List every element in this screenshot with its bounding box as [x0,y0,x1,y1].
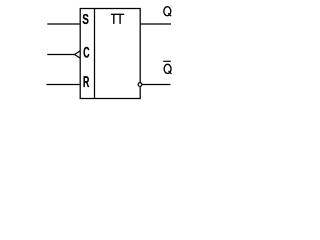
wire: R input [47,84,81,86]
wire: Q-bar output [142,84,170,86]
inversion bubble on Q-bar output [138,83,142,87]
divider line between control column and main field [94,9,96,99]
wire: Q output [140,23,171,25]
pin label R [84,77,89,87]
node label Q [164,7,171,17]
flip-flop U1 body [80,9,140,99]
pin label C [84,47,89,57]
label TT [111,14,124,24]
pin label S [83,14,88,24]
dynamic input triangle on C [75,51,81,59]
node label Q-bar [163,61,171,74]
wire: S input [47,23,80,25]
wire: C input [47,54,74,56]
